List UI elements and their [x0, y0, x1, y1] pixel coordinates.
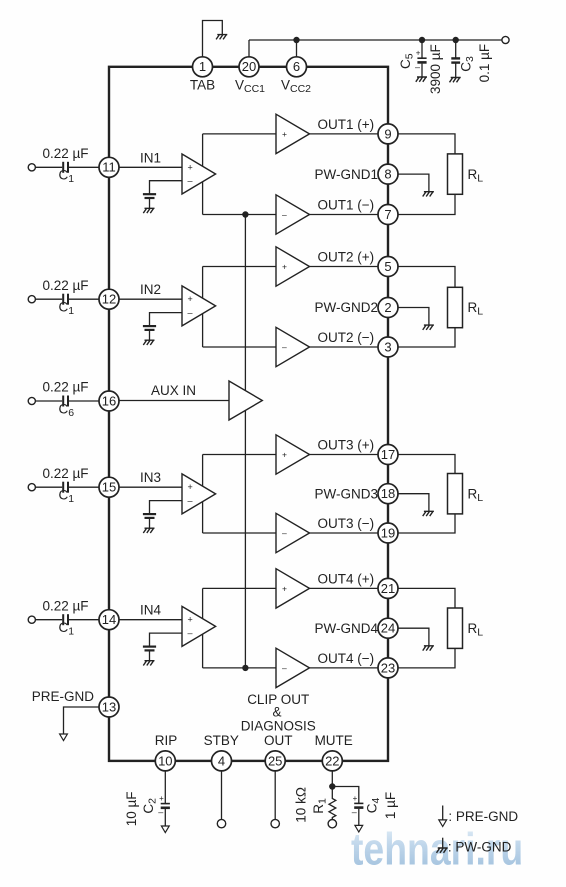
wire pin 14 to amplifier — [119, 619, 182, 621]
buffer OUT1 minus — [276, 195, 310, 234]
op-amp input stage IN3 — [182, 474, 216, 514]
pin 3 OUT2- — [378, 337, 398, 357]
svg-text:15: 15 — [102, 480, 116, 495]
svg-text:10: 10 — [158, 753, 172, 768]
pin 2 PW-GND2 — [378, 298, 398, 318]
wire pin 21 to load — [398, 588, 455, 608]
svg-text:12: 12 — [102, 292, 116, 307]
wire TAB to ground — [203, 21, 223, 57]
pin 11 IN1 — [99, 157, 119, 177]
wire to noninverting buffer IN1 — [203, 133, 276, 135]
svg-text:+: + — [282, 583, 287, 593]
diagnosis bus wire — [244, 215, 246, 668]
wire C5 to ground — [421, 64, 423, 77]
svg-text:+: + — [282, 450, 287, 460]
svg-text:–: – — [282, 663, 287, 673]
buffer OUT4 plus — [276, 569, 310, 608]
wire op-amp minus input IN2 — [150, 313, 183, 326]
wire pin 15 to amplifier — [119, 486, 182, 488]
wire pin 10 to C2 — [164, 771, 166, 804]
pin 7 OUT1- — [378, 205, 398, 225]
svg-text:–: – — [415, 62, 420, 72]
svg-text:7: 7 — [384, 207, 391, 222]
svg-text:18: 18 — [381, 486, 395, 501]
pin 17 OUT3+ — [378, 445, 398, 465]
pin 13 — [99, 697, 119, 717]
wire buffer to pin 7 — [310, 214, 379, 216]
capacitor C6 0.22 uF — [62, 396, 64, 407]
pin 1 TAB — [193, 57, 213, 77]
svg-text:RIP: RIP — [155, 733, 178, 748]
wire C1 to pin 14 — [69, 619, 99, 621]
op-amp input stage IN4 — [182, 606, 216, 646]
svg-text:IN2: IN2 — [140, 282, 161, 297]
buffer OUT1 plus — [276, 114, 310, 153]
resistor RL load 2 — [448, 287, 463, 327]
svg-text:3900 µF: 3900 µF — [428, 44, 443, 94]
wire pin 19 to load — [398, 514, 455, 533]
wire C3 to ground — [455, 63, 457, 78]
wire cap to ground IN4 — [149, 650, 151, 660]
wire to noninverting buffer IN4 — [203, 587, 276, 589]
svg-text:: PRE-GND: : PRE-GND — [448, 809, 518, 824]
wire rail to C5 — [421, 40, 423, 58]
svg-text:+: + — [282, 129, 287, 139]
ground PW-GND below C5 — [416, 77, 427, 82]
capacitor C4 (polarized) — [354, 802, 363, 804]
ground PW-GND below C3 — [450, 78, 461, 83]
wire pin 2 to ground — [398, 308, 429, 325]
legend PRE-GND symbol — [442, 806, 444, 820]
svg-text:14: 14 — [102, 612, 116, 627]
wire pin 16 to AUX amp — [119, 400, 229, 402]
wire C1 to pin 12 — [69, 298, 99, 300]
node junction at C5 — [419, 37, 425, 43]
wire op-amp minus input IN1 — [150, 181, 183, 194]
svg-text:+: + — [353, 794, 358, 803]
svg-text:–: – — [188, 176, 193, 186]
pin 18 PW-GND3 — [378, 484, 398, 504]
svg-text:17: 17 — [381, 447, 395, 462]
wire rail to C3 — [455, 40, 457, 58]
input terminal AUX — [28, 397, 35, 404]
wire buffer to pin 21 — [310, 587, 379, 589]
pin 9 OUT1+ — [378, 124, 398, 144]
terminal DIAG OUT — [271, 819, 279, 827]
svg-text:+: + — [416, 49, 421, 58]
wire VCC2 pin 6 up to rail — [296, 40, 298, 57]
ground PW-GND1 symbol — [423, 192, 434, 197]
svg-text:+: + — [282, 262, 287, 272]
node mute junction — [329, 783, 335, 789]
op-amp input stage IN2 — [182, 286, 216, 326]
wire op-amp minus input IN3 — [150, 501, 183, 514]
pin 15 IN3 — [99, 477, 119, 497]
svg-text:0.22 µF: 0.22 µF — [42, 278, 88, 293]
svg-text:+: + — [188, 162, 193, 172]
wire cap to ground IN2 — [149, 330, 151, 340]
ground PW-GND at IN3 input — [143, 528, 154, 533]
svg-text:: PW-GND: : PW-GND — [448, 840, 512, 855]
capacitor C1 0.22 uF — [62, 482, 64, 493]
svg-text:0.22 µF: 0.22 µF — [42, 380, 88, 395]
svg-text:OUT: OUT — [264, 733, 293, 748]
svg-text:2: 2 — [384, 300, 391, 315]
capacitor at IN3 minus input — [143, 513, 156, 515]
svg-text:OUT1 (+): OUT1 (+) — [318, 117, 375, 132]
svg-text:20: 20 — [242, 59, 256, 74]
svg-text:19: 19 — [381, 525, 395, 540]
svg-text:–: – — [188, 628, 193, 638]
buffer OUT2 plus — [276, 247, 310, 286]
input terminal IN2 — [28, 296, 35, 303]
terminal STBY — [217, 819, 225, 827]
svg-text:–: – — [188, 308, 193, 318]
svg-text:PW-GND2: PW-GND2 — [314, 300, 378, 315]
wire buffer to pin 5 — [310, 266, 379, 268]
wire pin 17 to load — [398, 455, 455, 474]
svg-text:IN4: IN4 — [140, 603, 162, 618]
svg-text:–: – — [352, 807, 357, 817]
wire terminal to C1 — [35, 166, 62, 168]
aux amplifier — [229, 381, 262, 420]
pin 6 VCC2 — [287, 57, 307, 77]
pin 8 PW-GND1 — [378, 164, 398, 184]
capacitor C1 0.22 uF — [62, 294, 64, 305]
svg-text:OUT4 (−): OUT4 (−) — [318, 651, 375, 666]
pin 19 OUT3- — [378, 523, 398, 543]
pin 14 IN4 — [99, 610, 119, 630]
svg-text:0.22 µF: 0.22 µF — [42, 146, 88, 161]
wire terminal to C1 — [35, 619, 62, 621]
ground PW-GND2 symbol — [423, 325, 434, 330]
wire C1 to pin 15 — [69, 486, 99, 488]
legend PW-GND symbol — [442, 838, 444, 848]
wire buffer to pin 17 — [310, 454, 379, 456]
svg-text:16: 16 — [102, 393, 116, 408]
pin 5 OUT2+ — [378, 257, 398, 277]
wire cap to ground IN3 — [149, 518, 151, 528]
input terminal IN1 — [28, 164, 35, 171]
wire buffer to pin 9 — [310, 133, 379, 135]
wire to noninverting buffer IN3 — [203, 454, 276, 456]
wire to noninverting buffer IN2 — [203, 266, 276, 268]
wire pin 3 to load — [398, 328, 455, 347]
capacitor C2 (polarized) — [161, 803, 170, 805]
svg-text:6: 6 — [293, 59, 300, 74]
svg-text:+: + — [159, 794, 164, 803]
wire split IN3 vertical — [202, 455, 204, 534]
svg-text:0.22 µF: 0.22 µF — [42, 598, 88, 613]
svg-text:&: & — [272, 704, 281, 719]
node bus top junction — [242, 211, 248, 217]
svg-text:PW-GND4: PW-GND4 — [314, 621, 378, 636]
ground PW-GND at TAB — [216, 35, 227, 40]
svg-text:PRE-GND: PRE-GND — [32, 689, 95, 704]
wire pin 22 down — [331, 771, 333, 787]
svg-text:OUT3 (+): OUT3 (+) — [318, 438, 375, 453]
wire pin 12 to amplifier — [119, 298, 182, 300]
buffer OUT3 minus — [276, 513, 310, 552]
svg-text:–: – — [158, 807, 163, 817]
ground PW-GND at IN1 input — [143, 208, 154, 213]
wire pin 4 down — [221, 771, 223, 820]
svg-text:0.1 µF: 0.1 µF — [477, 44, 492, 83]
capacitor at IN2 minus input — [143, 325, 156, 327]
wire pin 13 to pre-gnd — [64, 707, 100, 734]
ground PRE-GND below C4 — [355, 825, 363, 832]
wire pin 7 to load — [398, 194, 455, 214]
resistor RL load 4 — [448, 608, 463, 648]
svg-text:AUX IN: AUX IN — [151, 383, 196, 398]
wire buffer to pin 23 — [310, 667, 379, 669]
svg-text:OUT4 (+): OUT4 (+) — [318, 572, 375, 587]
svg-text:+: + — [188, 615, 193, 625]
pin 10 RIP — [155, 751, 175, 771]
capacitor C1 0.22 uF — [62, 614, 64, 625]
wire buffer to pin 19 — [310, 532, 379, 534]
svg-text:IN1: IN1 — [140, 150, 161, 165]
resistor RL load 1 — [448, 154, 463, 194]
resistor RL load 3 — [448, 474, 463, 514]
svg-text:TAB: TAB — [190, 77, 215, 92]
svg-text:1 µF: 1 µF — [383, 792, 398, 819]
wire pin 25 down — [274, 771, 276, 820]
svg-text:24: 24 — [381, 621, 395, 636]
svg-text:10 kΩ: 10 kΩ — [293, 787, 308, 823]
terminal below R1 — [328, 820, 336, 828]
wire C4 to pre-gnd — [358, 809, 360, 826]
svg-text:4: 4 — [218, 753, 225, 768]
wire mute to C4 — [332, 787, 359, 804]
pin 12 IN2 — [99, 289, 119, 309]
svg-text:1: 1 — [199, 59, 206, 74]
op-amp input stage IN1 — [182, 154, 216, 194]
supply rail wire — [249, 39, 506, 41]
ground PW-GND4 symbol — [423, 646, 434, 651]
pin 22 MUTE — [322, 751, 342, 771]
wire VCC1 pin 20 up to supply rail — [248, 40, 250, 57]
svg-text:8: 8 — [384, 167, 391, 182]
wire pin 9 to load — [398, 134, 455, 154]
svg-text:+: + — [188, 482, 193, 492]
svg-text:–: – — [282, 342, 287, 352]
wire buffer to pin 3 — [310, 346, 379, 348]
svg-text:23: 23 — [381, 660, 395, 675]
input terminal IN4 — [28, 616, 35, 623]
ground PW-GND at IN4 input — [143, 661, 154, 666]
svg-text:OUT2 (+): OUT2 (+) — [318, 250, 375, 265]
pin 16 AUX — [99, 391, 119, 411]
buffer OUT4 minus — [276, 648, 310, 687]
ground PW-GND3 symbol — [423, 511, 434, 516]
node junction at C3 — [453, 37, 459, 43]
svg-text:9: 9 — [384, 126, 391, 141]
svg-text:3: 3 — [384, 339, 391, 354]
wire terminal to C1 — [35, 486, 62, 488]
wire to inverting buffer IN1 — [203, 214, 276, 216]
wire C6 to pin 16 — [69, 400, 99, 402]
pin 21 OUT4+ — [378, 578, 398, 598]
pin 25 DIAG — [265, 751, 285, 771]
svg-text:MUTE: MUTE — [315, 733, 353, 748]
svg-text:11: 11 — [102, 160, 116, 175]
wire split IN2 vertical — [202, 267, 204, 348]
capacitor C3 — [451, 57, 460, 59]
svg-text:5: 5 — [384, 259, 391, 274]
supply input terminal — [502, 36, 509, 43]
IC block outline — [109, 67, 388, 761]
input terminal IN3 — [28, 484, 35, 491]
wire op-amp minus input IN4 — [150, 633, 183, 646]
node junction above VCC2 — [293, 37, 299, 43]
svg-text:OUT3 (−): OUT3 (−) — [318, 516, 375, 531]
watermark tehnari.ru — [351, 824, 523, 874]
capacitor C5 (polarized) — [417, 57, 426, 59]
wire pin 8 to ground — [398, 174, 429, 191]
capacitor C1 0.22 uF — [62, 162, 64, 173]
svg-text:–: – — [188, 496, 193, 506]
wire to inverting buffer IN2 — [203, 346, 276, 348]
svg-text:+: + — [188, 294, 193, 304]
svg-text:PW-GND3: PW-GND3 — [314, 486, 378, 501]
wire pin 11 to amplifier — [119, 166, 182, 168]
svg-text:22: 22 — [325, 753, 339, 768]
svg-text:21: 21 — [381, 581, 395, 596]
wire pin 5 to load — [398, 267, 455, 288]
pin 4 STBY — [212, 751, 232, 771]
wire C2 to pre-gnd — [164, 809, 166, 826]
resistor R1 10k — [329, 787, 336, 820]
wire pin 23 to load — [398, 648, 455, 668]
svg-text:DIAGNOSIS: DIAGNOSIS — [241, 719, 316, 734]
svg-text:10 µF: 10 µF — [124, 792, 139, 827]
svg-text:STBY: STBY — [204, 733, 239, 748]
pin 24 PW-GND4 — [378, 618, 398, 638]
wire to inverting buffer IN3 — [203, 532, 276, 534]
wire to inverting buffer IN4 — [203, 667, 276, 669]
svg-text:IN3: IN3 — [140, 470, 161, 485]
wire split IN1 vertical — [202, 134, 204, 215]
capacitor at IN1 minus input — [143, 193, 156, 195]
wire pin 18 to ground — [398, 494, 429, 511]
wire terminal to C6 — [35, 400, 62, 402]
wire pin 24 to ground — [398, 628, 429, 645]
ground PRE-GND below C2 — [161, 826, 169, 833]
buffer OUT2 minus — [276, 327, 310, 366]
wire C1 to pin 11 — [69, 166, 99, 168]
wire split IN4 vertical — [202, 588, 204, 668]
capacitor at IN4 minus input — [143, 645, 156, 647]
ground PW-GND at IN2 input — [143, 340, 154, 345]
svg-text:PW-GND1: PW-GND1 — [314, 167, 378, 182]
node bus bottom junction — [242, 665, 248, 671]
svg-text:0.22 µF: 0.22 µF — [42, 466, 88, 481]
svg-text:OUT2 (−): OUT2 (−) — [318, 330, 375, 345]
svg-text:–: – — [282, 528, 287, 538]
ground PRE-GND at pin 13 — [60, 734, 68, 741]
pin 20 VCC1 — [239, 57, 259, 77]
svg-text:–: – — [282, 210, 287, 220]
pin 23 OUT4- — [378, 658, 398, 678]
svg-text:25: 25 — [268, 753, 282, 768]
svg-text:13: 13 — [102, 699, 116, 714]
wire terminal to C1 — [35, 298, 62, 300]
buffer OUT3 plus — [276, 435, 310, 474]
wire cap to ground IN1 — [149, 198, 151, 208]
svg-text:OUT1 (−): OUT1 (−) — [318, 198, 375, 213]
